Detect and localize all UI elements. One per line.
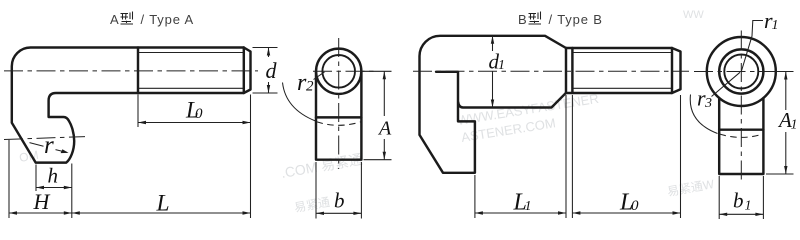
svg-text:易紧通W: 易紧通W [666,177,716,199]
centerline axis B [413,70,689,72]
rod end chamfer B [672,48,681,93]
rod end chamfer A [244,48,251,94]
dimension L0 (B) [572,95,680,218]
radius r1 leader [741,21,763,72]
svg-text:L: L [156,191,170,217]
eye outer circle B [707,37,776,106]
svg-text:/ Type B: / Type B [549,12,603,27]
watermark ghost text [18,9,716,215]
taper end line B [565,48,567,93]
dimension L0 (A) [138,95,251,219]
dimension A1 [766,72,794,175]
svg-text:A: A [377,118,392,140]
shank rectangle A [316,71,361,159]
dimension L [72,212,251,214]
dimension A [363,71,392,159]
hook body outline B [420,36,567,173]
title Type A [110,12,194,28]
thread start line B [571,48,573,93]
dimension d1 [492,36,494,108]
eye middle circle B [719,49,763,93]
eye inner circle B [724,55,758,89]
svg-text:d: d [266,58,278,83]
thread root lines B [573,53,672,89]
thread start line A [137,48,139,94]
svg-text:B: B [518,12,528,27]
eye outer circle A [316,49,361,94]
rod top and bottom B [566,48,672,93]
eye inner circle A [322,55,355,88]
svg-text:WW: WW [683,9,704,21]
vertical centerline B side [740,31,742,182]
hook arc centerline A [4,137,85,140]
svg-text:0: 0 [631,198,639,214]
svg-text:/ Type A: / Type A [141,12,195,27]
dimension h [36,164,72,219]
svg-text:b: b [733,189,744,213]
shank rectangle B [719,98,763,174]
svg-text:3: 3 [704,96,712,111]
svg-text:1: 1 [745,199,752,214]
dimension H [9,140,72,218]
junction line A [316,116,361,118]
svg-text:b: b [334,189,345,213]
radius r leader [30,143,67,153]
svg-text:r: r [44,132,54,159]
vertical centerline A side [338,38,340,169]
svg-text:2: 2 [306,79,314,95]
svg-text:.COM 易紧通: .COM 易紧通 [280,151,364,181]
horizontal centerline A side [313,70,375,72]
dimension b1 [719,176,763,219]
dimension L1 [475,95,566,218]
dimension d [253,48,278,94]
radius r2 leader [283,72,325,121]
hidden arc A [317,122,362,126]
title Type B [518,12,603,28]
svg-text:0: 0 [195,106,203,122]
centerline axis A [4,70,258,72]
thread root lines A [139,53,244,89]
svg-text:1: 1 [525,199,532,214]
svg-text:易紧通: 易紧通 [293,195,331,215]
svg-text:h: h [48,164,59,188]
radius r3 leader [690,72,740,133]
dimension b [316,162,361,219]
hook body outline A [12,48,244,163]
svg-text:1: 1 [791,118,798,133]
kanji 型 A [121,12,134,25]
kanji 型 B [529,12,542,25]
junction line B [719,128,763,130]
svg-text:H: H [33,189,51,214]
svg-text:1: 1 [772,18,779,33]
hidden arc B [720,134,764,137]
horizontal centerline B side [694,71,794,73]
svg-text:A: A [110,12,120,27]
svg-text:1: 1 [498,58,505,73]
